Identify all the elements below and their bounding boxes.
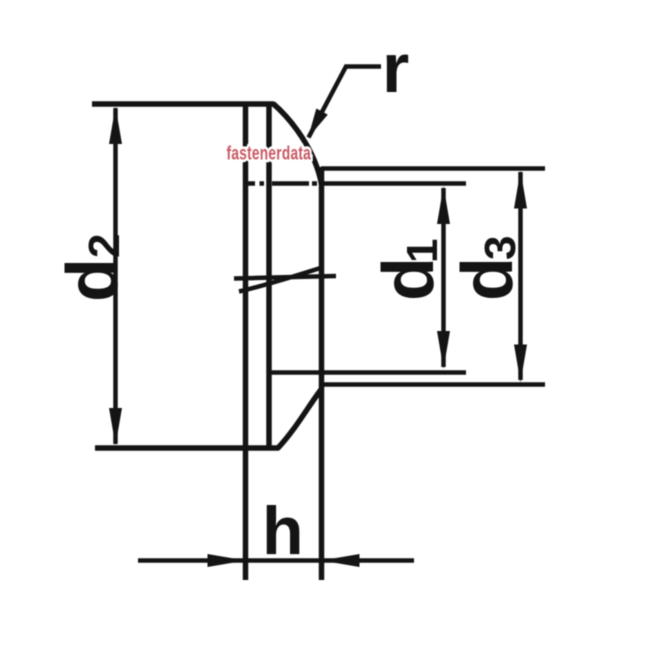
svg-text:fastenerdata: fastenerdata — [227, 142, 312, 164]
washer inner vertical line — [266, 102, 272, 448]
svg-text:h: h — [262, 493, 304, 569]
svg-text:d2: d2 — [53, 234, 133, 302]
svg-text:d1: d1 — [369, 239, 449, 301]
break line horizontal — [234, 276, 336, 279]
washer left face / h extension line — [243, 102, 249, 581]
dome bottom curve — [278, 389, 322, 449]
break line diagonal — [239, 268, 322, 292]
d1 arrow up — [437, 186, 450, 224]
d3 extension line bottom — [321, 382, 545, 387]
d1 arrow down — [437, 331, 450, 369]
washer right face / h extension line — [319, 167, 325, 580]
centre dash-dot line — [248, 181, 317, 186]
h dimension line — [138, 558, 414, 563]
d2 arrow down — [109, 408, 122, 446]
washer bottom edge line — [95, 445, 279, 451]
d1 extension line top — [319, 181, 466, 186]
d2 dimension line — [113, 108, 118, 444]
svg-text:r: r — [382, 29, 409, 107]
h arrow right — [208, 554, 246, 567]
d3 arrow down — [514, 345, 527, 383]
d2 arrow up — [109, 107, 122, 145]
washer top edge line — [92, 101, 274, 107]
d3 arrow up — [514, 171, 527, 209]
dome top curve — [273, 104, 322, 185]
d3 dimension line — [518, 172, 523, 380]
h arrow left — [322, 554, 360, 567]
r leader arrowhead — [308, 109, 328, 139]
d1 extension line bottom — [269, 370, 466, 375]
r leader line — [309, 67, 382, 138]
svg-text:d3: d3 — [448, 236, 528, 301]
d3 extension line top — [321, 166, 545, 171]
d1 dimension line — [441, 188, 446, 367]
